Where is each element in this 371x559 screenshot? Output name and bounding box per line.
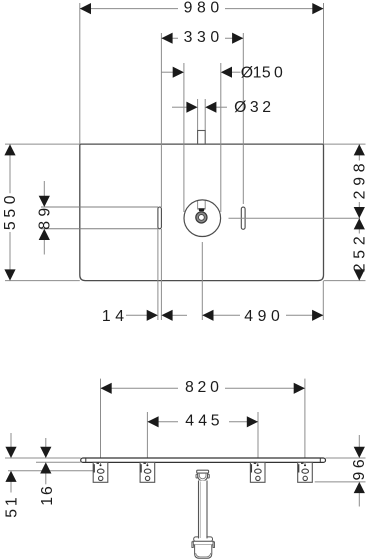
dimension 445 line [147,421,178,423]
svg-text:5: 5 [2,209,19,218]
extension lines 14 (slot edges downward) [157,229,159,320]
slab right end cap line [319,458,321,462]
dimension 820 arrow left [101,383,112,394]
dimension 330 line [161,37,178,39]
extension line 490 right (basin corner down) [322,281,324,320]
drain U collar inner [199,473,206,479]
dimension 980 arrow left [80,3,91,14]
svg-text:0: 0 [210,0,219,17]
dimension 89 arrow top (pointing down) [43,181,45,197]
svg-text:9: 9 [258,308,267,325]
svg-text:Ø: Ø [241,64,253,81]
extension line bottom-left corner to 550 [5,280,80,282]
dimension 445 arrow right [247,416,258,427]
dimension 490 line [202,314,240,316]
trap cup [195,545,212,559]
dimension diameter32 right arrow with tail [216,106,227,108]
dimension 298/252 bowtie arrows at centerline [354,207,365,218]
dimension 96 arrow bottom (up) [358,492,360,506]
drain pipe inner shading line [199,482,201,539]
slab top extension line right [326,457,366,459]
svg-text:4: 4 [198,412,207,429]
drain collar ear left [196,474,198,478]
svg-text:8: 8 [37,221,54,230]
dimension 16 arrow top (down) [45,438,47,448]
svg-text:1: 1 [39,497,56,506]
dimension 550 arrow bottom [4,269,15,280]
drain collar ear right [208,474,210,478]
dimension 298/252 line [358,144,360,160]
tap hole extension lines inside circle [197,201,199,210]
channel bottom line [41,228,158,230]
dimension 96 arrow top (down) [358,435,360,448]
svg-text:3: 3 [184,29,193,46]
wall bracket 4 [298,462,313,482]
channel end slot (pill) [158,207,162,229]
extension line top-right corner to right dims [324,143,366,145]
svg-text:1: 1 [253,64,262,81]
dimension 330 arrow left [161,33,172,44]
svg-text:0: 0 [210,29,219,46]
trap flange [193,541,213,545]
trap flange tab left [192,542,193,548]
tap hole ring inner [199,215,205,221]
extension line 445 left [146,412,148,458]
svg-text:3: 3 [250,99,259,116]
svg-text:5: 5 [3,509,20,518]
wall bracket 3 [250,462,265,482]
svg-text:4: 4 [185,412,194,429]
dimension diameter150 left arrow with tail [161,71,174,73]
dimension 820 line [101,387,179,389]
extension line 820 right [304,379,306,458]
extension line diameter32 right [204,99,206,131]
svg-text:9: 9 [352,177,369,186]
trap flange tab right [213,542,214,548]
svg-text:2: 2 [352,191,369,200]
svg-text:2: 2 [352,236,369,245]
dimension 820 arrow right [294,383,305,394]
svg-text:8: 8 [352,163,369,172]
dimension 14 left arrow with tail [126,314,148,316]
svg-text:0: 0 [271,308,280,325]
bracket slot extension line (51) [8,470,97,472]
dimension diameter150 right arrow with tail [230,71,241,73]
extension line diameter32 left [197,99,199,131]
drain U collar outer [198,473,208,481]
extension line 330 right (overflow slot, up) [242,33,244,204]
extension line 445 right [257,412,259,458]
svg-text:2: 2 [352,264,369,273]
svg-text:6: 6 [39,486,56,495]
svg-text:9: 9 [37,208,54,217]
drain pipe right edge [206,481,208,539]
svg-text:5: 5 [2,221,19,230]
slab bottom extension line (16) [36,461,81,463]
dimension 51 arrow bottom (up) [10,481,12,493]
dimension 445 arrow left [147,416,158,427]
svg-text:1: 1 [102,308,111,325]
bracket bottom extension line (96) [315,481,366,483]
slab top extension line left [5,457,81,459]
svg-text:8: 8 [185,379,194,396]
drain pipe left edge [198,481,200,539]
extension line 980 left [79,3,81,144]
dimension 490 arrow right [312,310,323,321]
drain pipe body [199,481,206,539]
dimension 16 arrow bottom (up) [45,473,47,484]
slab left end cap line [85,458,87,462]
wall bracket 1 [93,462,108,482]
dimension 14 right arrow with tail [172,314,187,316]
wall bracket 2 [140,462,155,482]
extension line 330 left (slot right edge, up) [160,33,162,207]
dimension 330 arrow right [232,33,243,44]
svg-text:4: 4 [244,308,253,325]
extension line 820 left [100,379,102,458]
dimension 550 arrow top [4,144,15,155]
svg-text:2: 2 [262,99,271,116]
extension line diameter150 left tangent [183,63,185,212]
svg-text:5: 5 [262,64,271,81]
basin outline [80,144,324,281]
svg-text:3: 3 [197,29,206,46]
dimension 550 line [9,144,11,193]
svg-text:8: 8 [197,0,206,17]
svg-text:9: 9 [351,471,368,480]
svg-text:6: 6 [351,459,368,468]
trap collar [194,537,213,542]
overflow slot (pill) [241,207,245,229]
dimension 298 arrow top [354,144,365,155]
trap cup inner bottom line [196,553,211,557]
svg-text:5: 5 [211,412,220,429]
svg-text:Ø: Ø [234,99,246,116]
svg-text:0: 0 [274,64,283,81]
svg-text:4: 4 [115,308,124,325]
vertical centerline below circle [201,242,203,320]
tap hole rectangle at rear edge [198,131,206,145]
svg-text:5: 5 [352,250,369,259]
slab (basin front profile) [81,458,326,462]
dimension 89 arrow bottom (pointing up) [43,239,45,255]
svg-text:9: 9 [184,0,193,17]
dimension 252 arrow bottom [354,269,365,280]
dimension 51 arrow top (down) [10,433,12,448]
dimension diameter32 left arrow with tail [172,106,187,108]
dimension 980 arrow right [312,3,323,14]
extension line 980 right [323,3,325,144]
extension line top-left corner to 550 [5,143,80,145]
svg-text:0: 0 [2,195,19,204]
svg-text:2: 2 [198,379,207,396]
horizontal centerline [229,217,361,219]
svg-text:1: 1 [3,497,20,506]
channel top line [41,206,158,208]
drain top cap [197,470,209,473]
extension line diameter150 right tangent [220,63,222,212]
tap hole cone (dark trapezoid) [198,208,205,211]
dimension 980 line [80,8,178,10]
valve circle diameter150 [184,200,221,237]
svg-text:0: 0 [210,379,219,396]
dimension 490 arrow left [202,310,213,321]
extension line bottom-right corner to right dims [324,280,366,282]
tap hole ring outer [196,212,207,223]
